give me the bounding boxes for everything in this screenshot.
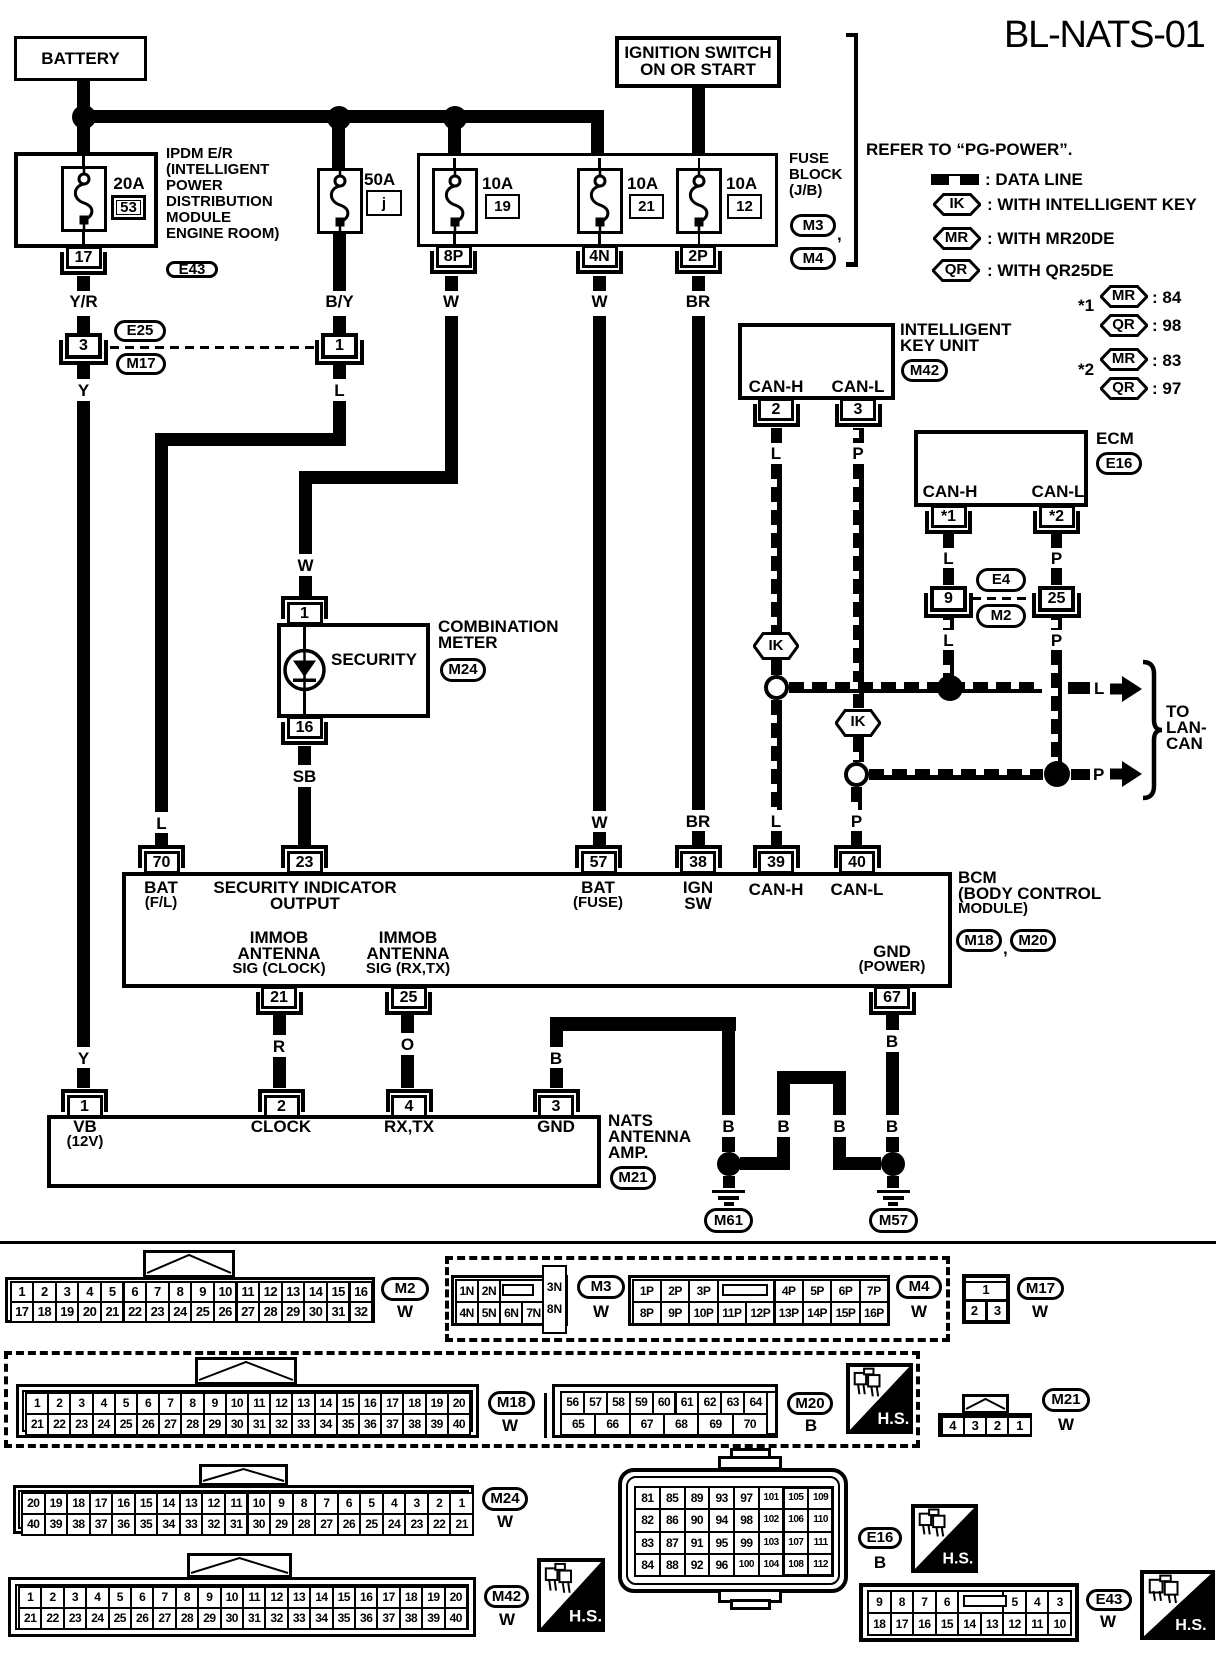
note *2 xyxy=(1078,361,1094,379)
combination meter M24 xyxy=(281,596,328,619)
wire BR 2P-BCM xyxy=(692,276,705,291)
brace to LAN-CAN xyxy=(1141,658,1163,802)
connector face M18 xyxy=(195,1357,297,1385)
value 53 xyxy=(111,195,146,220)
junction dot CAN-L/ECM xyxy=(1044,761,1070,787)
junction dot M61 xyxy=(717,1152,741,1176)
wire O xyxy=(401,1014,414,1033)
wire bus corner to fuse 21 xyxy=(591,116,604,160)
pin 17 xyxy=(66,246,102,269)
hs mark M18 M20 xyxy=(846,1363,913,1434)
wire ignition switch to fuse 12 xyxy=(692,88,705,160)
note *1 xyxy=(1078,297,1094,315)
wire R xyxy=(273,1014,286,1035)
connector face M42 xyxy=(187,1553,292,1578)
connector face E16 xyxy=(730,1448,771,1460)
connector E43 oval xyxy=(166,261,218,278)
dashed link E25-M17 xyxy=(110,346,317,349)
pin 2P xyxy=(680,245,716,268)
connector face M24 xyxy=(199,1464,288,1486)
junction dot M57 xyxy=(881,1152,905,1176)
ECM box E16 xyxy=(914,430,1088,507)
pin 2 xyxy=(758,398,794,421)
data stub below 25 xyxy=(1051,617,1062,630)
IK symbol on CAN-H xyxy=(753,632,799,660)
wire Y long xyxy=(77,401,90,1047)
pin *2 xyxy=(1039,505,1075,528)
wire P ECM xyxy=(1051,534,1062,548)
battery xyxy=(14,36,147,81)
svg-text:H.S.: H.S. xyxy=(877,1410,909,1428)
label L xyxy=(333,364,346,379)
ground M57 xyxy=(887,1176,899,1188)
NATS antenna amp pins xyxy=(61,1089,108,1112)
CAN-H data line xyxy=(771,428,782,443)
junction circle CAN-H xyxy=(764,675,789,700)
pin 21 xyxy=(261,986,297,1009)
connector M4 oval xyxy=(790,247,836,270)
label SB xyxy=(298,746,311,765)
title xyxy=(1004,15,1205,56)
value 21 xyxy=(629,194,664,219)
dashed group box M18 M20 xyxy=(4,1351,920,1448)
svg-text:H.S.: H.S. xyxy=(942,1550,973,1567)
BCM box xyxy=(122,872,952,989)
fuse 50A xyxy=(317,168,363,234)
wire corner to BCM 70 xyxy=(155,433,346,446)
pin 67 xyxy=(874,986,910,1009)
label fuse block xyxy=(789,151,842,199)
wire B from 67 xyxy=(886,1014,899,1030)
note refer to PG-POWER xyxy=(866,141,1073,159)
value j xyxy=(366,190,402,216)
fuse 10A 21 xyxy=(598,158,601,177)
data stub below 9 xyxy=(943,617,954,630)
connector face M20 xyxy=(552,1384,778,1438)
connector junction 25 xyxy=(1032,593,1081,618)
pin *1 xyxy=(931,505,967,528)
pin 16 xyxy=(287,716,323,739)
hs mark M42 xyxy=(537,1558,605,1632)
connector junction 3 E25 M17 xyxy=(59,340,108,365)
connector face M4 xyxy=(628,1275,890,1326)
IK symbol on CAN-L xyxy=(835,709,881,737)
label IPDM xyxy=(166,146,279,242)
wire bus to 50A fuse xyxy=(332,123,345,168)
pin 4N xyxy=(582,245,618,268)
connector face E43 xyxy=(859,1583,1079,1642)
connector M3 oval xyxy=(790,214,836,237)
connector face M21 xyxy=(962,1394,1009,1414)
separator xyxy=(0,1241,1216,1245)
NATS antenna amp box M21 xyxy=(47,1115,601,1188)
BCM pins xyxy=(138,845,185,868)
connector junction 1 xyxy=(315,340,364,365)
fuse 20A xyxy=(82,156,85,175)
pin 8P xyxy=(436,245,472,268)
ignition switch xyxy=(615,36,781,88)
wire L ECM xyxy=(943,534,954,548)
pin 25 xyxy=(391,986,427,1009)
legend QR symbol xyxy=(932,259,980,282)
label B/Y xyxy=(333,234,346,291)
hs mark E43 xyxy=(1140,1570,1215,1640)
wire bus to fuse 19 xyxy=(448,123,461,160)
gnd bridge xyxy=(777,1071,846,1084)
junction circle CAN-L xyxy=(844,762,869,787)
connector face M3 xyxy=(451,1275,568,1326)
label Y/R xyxy=(77,276,90,291)
wire bus to IPDM fuse xyxy=(77,123,90,158)
security LED xyxy=(282,648,327,693)
CAN-L horizontal data line xyxy=(869,769,1043,780)
connector face M2 xyxy=(143,1250,235,1278)
wire B gnd net xyxy=(550,1017,736,1031)
svg-text:H.S.: H.S. xyxy=(569,1607,602,1626)
connector junction 9 E4 M2 xyxy=(924,593,973,618)
intelligent key unit M42 xyxy=(738,323,895,400)
dashed group box M3 M4 xyxy=(445,1256,950,1342)
legend data line symbol xyxy=(931,174,979,185)
fuse block J/B box xyxy=(417,153,778,248)
value 12 xyxy=(727,194,762,219)
CAN-H horizontal data line xyxy=(789,682,1043,693)
dashed link E4-M2 xyxy=(972,597,1031,600)
IPDM E/R box E43 xyxy=(14,152,158,248)
label Y xyxy=(77,364,90,379)
legend IK symbol xyxy=(933,193,981,216)
junction dot CAN-H/ECM xyxy=(937,675,963,701)
label BCM xyxy=(958,869,997,887)
svg-text:H.S.: H.S. xyxy=(1175,1616,1206,1634)
fuse 10A 19 xyxy=(453,158,456,177)
value 19 xyxy=(485,194,520,219)
wire corner to meter xyxy=(299,471,458,484)
fuse 10A 12 xyxy=(698,158,701,177)
connector face M17 xyxy=(962,1274,1010,1324)
CAN-L data line xyxy=(853,428,864,443)
wire W 4N-BCM xyxy=(593,276,606,291)
pin 3 xyxy=(840,398,876,421)
junction bus node xyxy=(77,110,604,123)
hs mark E16 xyxy=(911,1504,978,1573)
ground M61 xyxy=(723,1176,735,1188)
bracket xyxy=(854,33,858,267)
wire battery to bus xyxy=(77,79,90,112)
legend MR symbol xyxy=(933,227,981,250)
label W under 8P xyxy=(445,276,458,291)
